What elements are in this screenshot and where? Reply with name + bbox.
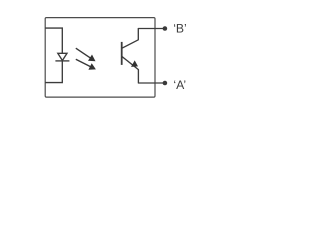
svg-text:‘B’: ‘B’: [173, 22, 187, 36]
svg-text:‘A’: ‘A’: [173, 78, 186, 92]
